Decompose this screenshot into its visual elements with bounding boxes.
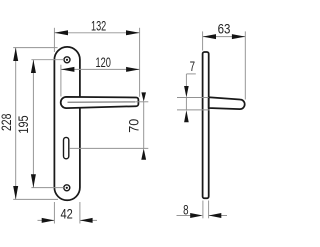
dim 195: dimension line: [32, 60, 34, 188]
dim 63: extension line right: [244, 31, 246, 99]
lever handle (side view): [209, 97, 245, 109]
bottom screw hole: [64, 185, 70, 191]
svg-text:42: 42: [61, 206, 73, 221]
dim 70: dimension line: [143, 102, 145, 149]
dim 228: dimension line: [15, 48, 17, 200]
svg-text:195: 195: [16, 115, 31, 133]
dim 7: bottom arrow (outside, pointing up): [184, 110, 189, 122]
keyhole: [64, 137, 69, 158]
dim 70: bottom arrow (outside, pointing up): [141, 148, 146, 159]
dim 120: extension line left: [60, 65, 62, 97]
top screw hole: [64, 57, 70, 63]
dim 228: extension line bottom: [13, 198, 58, 200]
dim 63: right arrow: [232, 34, 245, 39]
dim 70: extension line bottom (keyhole axis): [69, 147, 148, 149]
svg-text:70: 70: [126, 119, 141, 133]
bottom screw center dot: [66, 187, 68, 189]
dim 7: extension line bottom (lever bottom): [177, 109, 210, 111]
dim 8: left arrow (outside, pointing right): [190, 213, 203, 218]
dim 42: left arrow (outside, pointing right): [42, 218, 55, 223]
dim 132: left arrow: [54, 30, 68, 35]
dim 7: extension line top (lever top): [177, 97, 209, 99]
dim 228: bottom arrow: [13, 186, 18, 199]
dim 195: extension line top (to screw): [31, 59, 64, 61]
dim 8: right arrow (outside, pointing left): [209, 213, 222, 218]
dim 7: top arrow (outside, pointing down): [184, 86, 189, 98]
dim 195: bottom arrow: [31, 174, 36, 187]
lever centerline highlight: [68, 101, 136, 103]
backplate (side view): [203, 52, 209, 198]
dim 70: extension line top (lever axis): [136, 101, 149, 103]
dim 195: extension line bottom (to screw): [31, 187, 63, 189]
top screw center dot: [66, 59, 68, 61]
dim 132: extension line left: [53, 28, 55, 52]
dim 42: extension line right: [79, 202, 81, 224]
svg-text:228: 228: [0, 114, 14, 131]
dim 8: left tail line: [177, 215, 191, 217]
svg-text:120: 120: [96, 55, 111, 70]
dim 228: extension line top: [13, 47, 57, 49]
dim 70: top arrow (outside, pointing down): [141, 92, 146, 101]
dim 7: leader vertical: [185, 74, 187, 86]
dim 8: extension line left: [202, 201, 204, 219]
dim 120: left arrow: [61, 67, 75, 72]
dim 8: extension line right: [208, 201, 210, 219]
dim 228: top arrow: [13, 48, 18, 61]
dim 42: left tail line: [38, 219, 55, 221]
dim 8: right tail line: [209, 215, 227, 217]
svg-text:63: 63: [218, 21, 231, 36]
backplate (front view): [54, 47, 80, 200]
dim 42: extension line left: [53, 202, 55, 224]
dim 132: extension line right: [139, 28, 141, 97]
dim 42: right arrow (outside, pointing left): [80, 218, 93, 223]
svg-text:8: 8: [183, 202, 188, 217]
dim 42: right tail line: [80, 219, 97, 221]
dim 7: vertical connector: [185, 98, 187, 110]
dim 195: top arrow: [31, 60, 36, 73]
dim 63: left arrow: [203, 34, 216, 39]
svg-text:7: 7: [190, 59, 195, 74]
dim 120: dimension line: [61, 68, 140, 70]
dim 132: dimension line: [54, 32, 139, 34]
dim 132: right arrow: [126, 30, 140, 35]
dim 120: right arrow: [126, 67, 140, 72]
svg-text:132: 132: [91, 18, 106, 33]
dim 63: extension line left: [202, 31, 204, 50]
dim 63: dimension line: [203, 36, 246, 38]
lever handle (front view): [61, 97, 139, 108]
dim 7: leader underline: [187, 73, 196, 75]
